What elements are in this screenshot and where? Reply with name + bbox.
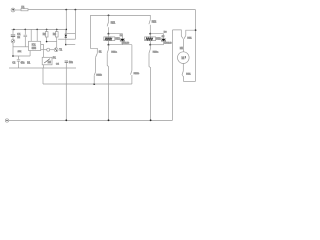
- relay RE1 coil: [104, 37, 115, 41]
- svg-text:RE1: RE1: [111, 23, 116, 25]
- wire motor bottom: [182, 63, 184, 71]
- wire lower gnd rail: [9, 67, 76, 69]
- svg-text:555: 555: [32, 47, 37, 50]
- svg-text:1M: 1M: [48, 62, 51, 64]
- node relay1 bottom: [108, 44, 110, 46]
- resistor R2: [46, 29, 48, 31]
- svg-text:S1: S1: [99, 51, 103, 53]
- branch1 lower: [108, 45, 110, 50]
- node relay2 bottom: [149, 44, 151, 46]
- transistor T1 circle: [54, 48, 58, 52]
- wire top rail drop 2: [74, 10, 76, 40]
- node bottom rail j2: [108, 119, 110, 121]
- svg-text:D3: D3: [164, 31, 168, 33]
- wire subrail 555: [12, 28, 67, 30]
- svg-text:C2: C2: [12, 62, 16, 64]
- relay contact RE2 column: [149, 15, 151, 19]
- preset P1: [43, 50, 45, 57]
- wire bottom rail: [9, 119, 173, 121]
- svg-text:1u: 1u: [17, 36, 20, 39]
- branch2 lower: [149, 45, 151, 50]
- wire IC pin2 left: [13, 46, 29, 48]
- contact blade on output column: [131, 71, 132, 75]
- node subrail j4: [46, 29, 48, 31]
- svg-text:47u: 47u: [21, 62, 26, 64]
- terminal arrow mark: [12, 9, 14, 11]
- node bottom rail j3: [150, 119, 152, 121]
- svg-text:1N4148: 1N4148: [122, 43, 130, 45]
- svg-text:R1: R1: [27, 62, 31, 64]
- svg-text:1N4148: 1N4148: [164, 43, 172, 45]
- wire gnd link: [12, 55, 30, 57]
- small circle: [47, 48, 50, 51]
- wire IC pin8: [30, 29, 32, 41]
- node gnd link: [12, 55, 14, 57]
- node second rail junction: [108, 15, 110, 17]
- svg-text:M: M: [182, 56, 185, 60]
- wire IC pin4: [36, 29, 38, 41]
- diode D3 flyback: [150, 34, 163, 39]
- svg-text:P1: P1: [53, 56, 57, 59]
- svg-text:T1: T1: [59, 49, 62, 52]
- diode D1 column: [65, 33, 76, 35]
- capacitor C3 column: [65, 60, 68, 62]
- svg-text:C4: C4: [56, 63, 60, 65]
- capacitor C2 lower: [18, 56, 20, 59]
- IC1 555: [29, 41, 41, 50]
- node top rail junction 2: [75, 9, 77, 11]
- wire motor top: [182, 39, 184, 52]
- svg-text:10n: 10n: [69, 61, 74, 64]
- wire top rail: [28, 9, 196, 11]
- terminal 0V: [5, 119, 8, 122]
- wire terminal to fuse: [15, 9, 21, 11]
- capacitor C1 column: [12, 29, 14, 34]
- svg-text:RE1: RE1: [187, 37, 192, 39]
- node relay2 top: [149, 33, 151, 35]
- wire left drop of rail2: [90, 15, 97, 53]
- svg-text:RE1a: RE1a: [111, 52, 117, 54]
- motor feed right column: [186, 30, 196, 35]
- svg-text:RE1: RE1: [115, 39, 120, 41]
- motor feed left column: [172, 30, 174, 120]
- wire second rail: [90, 14, 150, 16]
- wire R3 area right: [58, 38, 65, 40]
- wire P1 column down: [42, 68, 44, 84]
- svg-text:RE2: RE2: [156, 39, 161, 41]
- node output run: [93, 83, 95, 85]
- motor M1: [178, 52, 190, 64]
- resistor R3: [56, 29, 58, 31]
- capacitor C2 branch: [24, 29, 26, 34]
- relay contact RE1 column: [108, 15, 110, 22]
- wire bottom of right edge to motor contact: [183, 80, 195, 82]
- node D1 bottom: [65, 44, 67, 46]
- wire long output run: [43, 83, 132, 85]
- contact blade left: [181, 36, 183, 39]
- wire IC gnd pin down: [29, 51, 31, 57]
- svg-text:RE1b: RE1b: [96, 75, 102, 77]
- node relay1 top: [108, 33, 110, 35]
- terminal +V input: [11, 8, 15, 12]
- svg-text:10k: 10k: [18, 51, 22, 53]
- node subrail j1: [13, 29, 15, 31]
- svg-text:R2: R2: [43, 33, 47, 36]
- wire right edge down: [195, 10, 197, 82]
- diode D2 flyback: [109, 34, 123, 39]
- svg-text:RE2a: RE2a: [153, 52, 159, 54]
- svg-text:RE1: RE1: [186, 73, 191, 75]
- node right edge junction: [195, 29, 197, 31]
- svg-text:RE2b: RE2b: [134, 73, 140, 75]
- svg-text:1N: 1N: [162, 36, 165, 38]
- node R2 bottom: [46, 41, 48, 43]
- wire R3 to T1: [56, 42, 58, 48]
- relay RE2 coil: [145, 37, 156, 41]
- transistor T1 row: [41, 45, 44, 51]
- contact blade motor bottom: [182, 71, 183, 75]
- wire R2-R3 link: [47, 41, 57, 43]
- svg-text:RE2: RE2: [152, 22, 157, 24]
- zener indicator circle: [11, 39, 15, 43]
- node subrail j3: [36, 29, 38, 31]
- node subrail j5: [56, 29, 58, 31]
- switch S1 blade: [96, 53, 98, 57]
- node subrail j6: [66, 29, 68, 31]
- node subrail j2: [25, 29, 27, 31]
- wire vcc drop to 555 subrail: [65, 10, 67, 34]
- wire relay2 bottom loop: [150, 44, 163, 46]
- node top rail junction 1: [65, 9, 67, 11]
- fuse F1: [21, 9, 28, 11]
- wire D1 bottom right: [66, 44, 75, 46]
- wire relay1 bottom loop and output drop: [109, 44, 132, 46]
- contact blade 2: [94, 72, 96, 76]
- svg-text:R3: R3: [53, 33, 57, 36]
- node bottom rail j1: [65, 119, 67, 121]
- wire output column: [131, 45, 133, 71]
- contact blade right: [184, 35, 186, 38]
